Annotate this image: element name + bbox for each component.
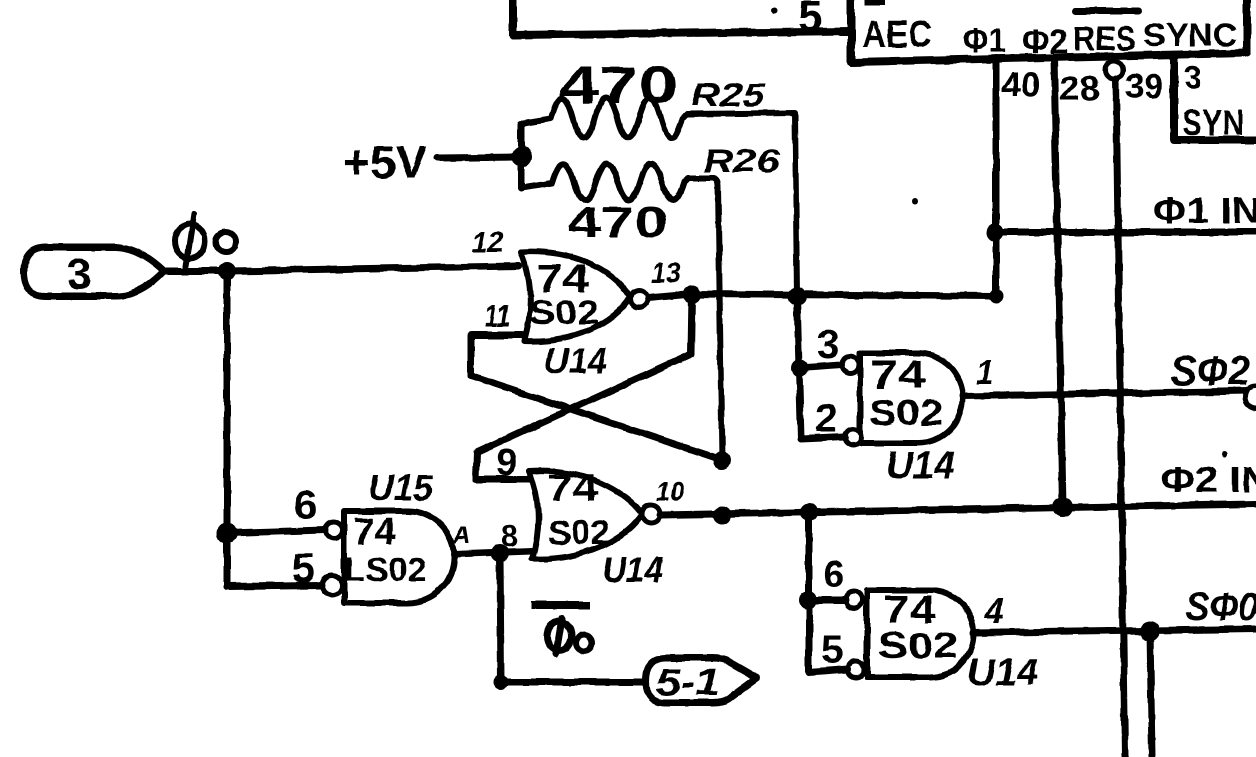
svg-text:6: 6	[294, 481, 317, 528]
wire phi0 to gate1 pin12	[227, 266, 519, 271]
wire +5V feed	[437, 157, 521, 158]
wire S-phi0 output	[973, 629, 1256, 633]
svg-text:U14: U14	[886, 445, 955, 487]
wire gate3 feed vertical	[797, 296, 845, 439]
svg-text:Φ2 IN: Φ2 IN	[1161, 459, 1256, 500]
wire pin11 cross-couple	[471, 335, 722, 460]
wire S-phi2 output	[963, 391, 1250, 396]
svg-text:S02: S02	[869, 392, 943, 433]
svg-text:40: 40	[1001, 64, 1041, 105]
nor gate U14c (S-phi2)	[842, 353, 963, 445]
resistor R26 470	[521, 164, 722, 460]
svg-text:11: 11	[484, 298, 511, 334]
svg-text:U14: U14	[967, 652, 1038, 694]
nor gate U14d (S-phi0)	[846, 590, 974, 677]
svg-text:S02: S02	[878, 625, 958, 666]
nand-style gate U15 (74LS02)	[323, 511, 455, 603]
svg-text:U14: U14	[544, 340, 607, 381]
svg-text:4: 4	[983, 590, 1004, 631]
node phi2 stub junction	[1053, 497, 1073, 517]
wire to U15 pin6	[227, 530, 325, 533]
svg-text:74: 74	[870, 353, 927, 397]
chip box SYNC destination	[1174, 57, 1256, 140]
svg-text:13: 13	[651, 257, 680, 290]
connector box pin 5 (top-left chip box)	[513, 0, 851, 35]
svg-text:Φ1: Φ1	[963, 22, 1006, 60]
net label phi0	[175, 214, 236, 266]
svg-text:28: 28	[1059, 70, 1100, 108]
svg-text:R26: R26	[703, 143, 780, 179]
wire phi2 pin 28 stub vertical	[1054, 57, 1063, 507]
node +5V junction	[512, 147, 532, 167]
svg-text:U15: U15	[368, 467, 434, 508]
node S-phi0 tap	[1140, 621, 1160, 641]
svg-text:74: 74	[353, 511, 396, 553]
svg-text:5-1: 5-1	[656, 662, 720, 704]
svg-text:470: 470	[559, 57, 678, 115]
node gate4 feed tap	[800, 503, 818, 521]
svg-text:LS02: LS02	[344, 551, 427, 588]
wire gate4 pin6	[808, 597, 846, 604]
node phi0 junction	[218, 262, 236, 280]
svg-text:6: 6	[823, 554, 844, 596]
node gate3 pin3 tap	[791, 359, 809, 377]
wire cross-couple gate1out to gate2 pin9	[476, 294, 692, 479]
svg-text:5: 5	[821, 628, 843, 672]
svg-text:12: 12	[471, 226, 504, 259]
svg-text:AEC: AEC	[862, 14, 932, 56]
connector 3 (phi0 input)	[24, 247, 227, 296]
svg-text:A: A	[452, 522, 470, 549]
net label phi0-bar	[531, 601, 592, 654]
node U15 output junction	[491, 544, 509, 562]
node cross-couple tap	[683, 285, 701, 303]
net label S-phi2	[1171, 347, 1250, 394]
label 74 S02 U14a	[529, 257, 599, 332]
svg-text:Φ1 IN: Φ1 IN	[1153, 190, 1256, 231]
svg-text:U14: U14	[602, 549, 663, 590]
wire resistor left leads vertical	[518, 124, 525, 188]
label 74 S02 U14c	[869, 353, 943, 433]
wire U15 output	[454, 551, 532, 554]
node R26 meets pin10	[713, 506, 731, 524]
svg-text:Φ2: Φ2	[1022, 23, 1068, 61]
connector circle right edge (S-phi2)	[1245, 386, 1256, 408]
wire phi1 pin 40 stub vertical	[993, 58, 1000, 296]
svg-text:3: 3	[1184, 60, 1202, 96]
svg-text:SΦ2: SΦ2	[1171, 347, 1250, 394]
svg-text:5: 5	[798, 0, 822, 41]
wire phi0 vertical to U15	[224, 271, 231, 586]
res pin bubble	[1105, 61, 1123, 79]
stray dot	[772, 8, 778, 14]
svg-text:S02: S02	[529, 294, 599, 332]
wire gate3 pin3	[800, 365, 841, 368]
CPU chip box U7 (AEC/phi1/phi2/RES/SYNC)	[840, 0, 1247, 62]
nor gate U14b (latch bottom)	[529, 471, 660, 559]
wire to U15 pin5	[227, 585, 322, 586]
svg-text:R25: R25	[691, 77, 767, 113]
label 74 LS02 U15	[344, 511, 427, 588]
node corner dot 5-1	[494, 675, 508, 689]
label 74 S02 U14b	[547, 468, 610, 552]
node phi1-in junction	[986, 223, 1004, 241]
svg-text:S02: S02	[548, 514, 610, 552]
svg-text:9: 9	[496, 442, 517, 484]
resistor R25 470	[521, 98, 797, 296]
node R25 tap	[788, 287, 806, 305]
wire pin10 output (phi2 IN net)	[660, 504, 1256, 515]
svg-text:+5V: +5V	[343, 136, 427, 188]
wire phi0-bar down to 5-1	[500, 553, 646, 682]
svg-text:3: 3	[67, 250, 91, 299]
stray mark top	[865, 0, 885, 5]
svg-text:39: 39	[1125, 68, 1163, 106]
node U15 pin6 tap	[217, 523, 237, 543]
svg-text:74: 74	[547, 468, 598, 510]
svg-text:RES: RES	[1073, 20, 1136, 58]
node corner dot	[989, 289, 1003, 303]
svg-text:SΦ0: SΦ0	[1186, 585, 1256, 629]
svg-text:SYNC: SYNC	[1143, 17, 1237, 53]
wire pin13 output (phi1 node)	[648, 294, 997, 298]
wire phi1 IN horizontal	[995, 229, 1256, 236]
svg-text:470: 470	[567, 198, 668, 247]
connector 5-1 (phi0-bar output)	[646, 658, 757, 703]
wire S-phi0 tap vertical	[1150, 631, 1152, 757]
svg-text:10: 10	[656, 476, 684, 507]
stray dot mid	[912, 198, 918, 204]
stray dot right	[1222, 451, 1228, 457]
svg-text:SYN: SYN	[1182, 102, 1244, 143]
svg-text:1: 1	[976, 355, 994, 391]
wire RES pin 39 vertical	[1116, 79, 1125, 757]
label 74 S02 U14d	[878, 588, 958, 666]
node diagonal meets R26 vertical	[713, 451, 731, 469]
wire gate4 feed vertical	[809, 512, 848, 672]
nor gate U14a (latch top)	[521, 252, 648, 341]
node gate4 pin6 tap	[799, 591, 817, 609]
svg-text:3: 3	[817, 323, 839, 367]
